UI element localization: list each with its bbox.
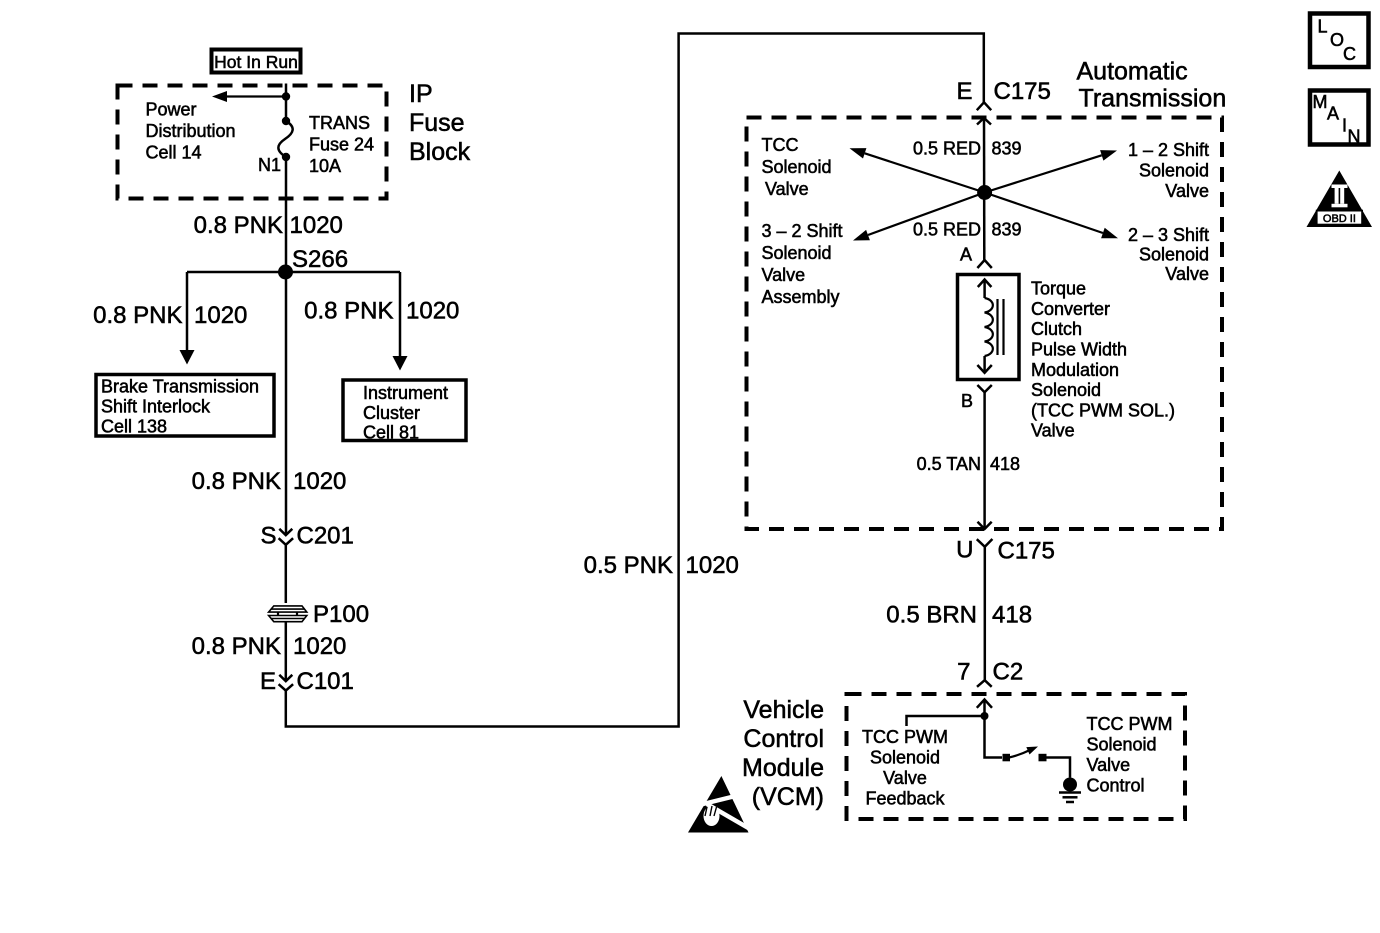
svg-text:839: 839 [992, 139, 1022, 159]
Power Distribution Cell 14 label [146, 100, 236, 163]
solenoid winding symbol [977, 280, 1003, 373]
svg-text:Solenoid: Solenoid [1139, 245, 1209, 265]
svg-text:I: I [1342, 116, 1347, 136]
wire label 0.8 PNK 1020 (right branch) [304, 298, 459, 325]
wire label 0.8 PNK 1020 [194, 212, 343, 239]
svg-text:Modulation: Modulation [1031, 360, 1119, 380]
svg-text:Hot In Run: Hot In Run [214, 52, 298, 72]
svg-text:Fuse 24: Fuse 24 [309, 135, 374, 155]
grommet P100 [269, 606, 307, 622]
arrow to 2-3 Shift Solenoid Valve [985, 193, 1118, 239]
svg-text:0.8 PNK: 0.8 PNK [192, 633, 281, 660]
wire C175 to C2 [984, 547, 987, 680]
svg-text:C101: C101 [297, 668, 354, 695]
main wire S266 down to C201 [285, 272, 288, 534]
svg-text:Shift Interlock: Shift Interlock [101, 397, 211, 417]
splice S266 node [278, 265, 293, 280]
wire from Hot In Run into fuse block [285, 84, 288, 122]
svg-text:TRANS: TRANS [309, 113, 370, 133]
switch arm with arrow [1009, 747, 1038, 758]
svg-text:N: N [1348, 127, 1361, 147]
splice node inside transmission [977, 185, 992, 200]
wire label 0.8 PNK 1020 (left branch) [93, 302, 247, 329]
fuse TRANS Fuse 24 [278, 117, 292, 161]
wire label 0.8 PNK 1020 (above C201) [192, 468, 347, 495]
Instrument Cluster box [343, 380, 466, 443]
svg-text:Valve: Valve [1087, 755, 1131, 775]
connector C175 female Y [977, 539, 993, 547]
wire label 0.5 BRN 418 [886, 602, 1032, 629]
wire to Instrument Cluster [393, 272, 408, 371]
svg-text:A: A [960, 245, 972, 265]
svg-text:O: O [1330, 30, 1344, 50]
connector C201 (male arrow half) [279, 529, 292, 535]
svg-text:OBD II: OBD II [1323, 213, 1356, 225]
svg-text:U: U [956, 537, 973, 564]
svg-text:C175: C175 [998, 538, 1055, 565]
svg-text:Valve: Valve [765, 179, 809, 199]
wire label 0.5 TAN 418 [917, 454, 1020, 474]
svg-text:0.5 BRN: 0.5 BRN [886, 602, 977, 629]
connector C2 male arrow entering VCM [977, 700, 992, 708]
svg-text:Converter: Converter [1031, 299, 1110, 319]
TCC PWM Solenoid Valve Control label [1087, 714, 1173, 796]
arrow to 1-2 Shift Solenoid Valve [985, 150, 1117, 192]
svg-text:839: 839 [992, 220, 1022, 240]
svg-text:Fuse: Fuse [409, 109, 465, 137]
svg-text:10A: 10A [309, 156, 341, 176]
wire label 0.5 RED 839 (lower) [913, 220, 1022, 240]
arrow to TCC Solenoid Valve [850, 148, 985, 192]
svg-text:Power: Power [146, 100, 197, 120]
svg-text:TCC PWM: TCC PWM [862, 727, 948, 747]
svg-text:Module: Module [742, 754, 824, 782]
wire P100 to C101 [285, 621, 288, 681]
TCC Solenoid Valve label [762, 135, 832, 199]
svg-text:Valve: Valve [1165, 264, 1209, 284]
1-2 Shift Solenoid Valve label [1128, 140, 1209, 201]
wire fuse to S266 [285, 157, 288, 272]
svg-text:TCC PWM: TCC PWM [1087, 714, 1173, 734]
2-3 Shift Solenoid Valve label [1128, 225, 1209, 284]
svg-text:IP: IP [409, 80, 433, 108]
connector C2 female chevron [977, 680, 992, 687]
Automatic Transmission dashed box [747, 118, 1223, 530]
long routing wire C101 to C175 [286, 34, 984, 727]
connector C175 male arrow leaving transmission [978, 522, 992, 529]
svg-text:Solenoid: Solenoid [762, 157, 832, 177]
wire from node to switch [985, 716, 1003, 758]
svg-text:S266: S266 [292, 246, 348, 273]
svg-text:TCC: TCC [762, 135, 799, 155]
node inside VCM [981, 712, 989, 720]
wire label 0.5 PNK 1020 [584, 552, 739, 579]
svg-text:Valve: Valve [762, 265, 806, 285]
svg-text:C175: C175 [994, 78, 1051, 105]
svg-text:Cluster: Cluster [363, 403, 420, 423]
svg-text:Valve: Valve [1165, 181, 1209, 201]
svg-text:Valve: Valve [883, 768, 927, 788]
svg-text:Solenoid: Solenoid [1139, 161, 1209, 181]
switch contact (left) [1003, 754, 1011, 762]
wire label 0.5 RED 839 (upper) [913, 139, 1022, 159]
svg-text:0.8 PNK: 0.8 PNK [93, 302, 182, 329]
OBD II symbol [1307, 171, 1373, 228]
TRANS Fuse 24 10A label [309, 113, 374, 176]
svg-text:B: B [961, 391, 973, 411]
svg-text:Brake Transmission: Brake Transmission [101, 377, 259, 397]
svg-text:0.5 RED: 0.5 RED [913, 139, 981, 159]
svg-text:7: 7 [957, 659, 970, 686]
svg-text:Assembly: Assembly [762, 287, 840, 307]
Hot In Run box [212, 50, 301, 73]
svg-text:1020: 1020 [686, 552, 739, 579]
svg-text:0.5 RED: 0.5 RED [913, 220, 981, 240]
svg-text:Cell 138: Cell 138 [101, 417, 167, 437]
svg-text:418: 418 [990, 454, 1020, 474]
svg-text:Transmission: Transmission [1079, 85, 1227, 113]
svg-text:Clutch: Clutch [1031, 319, 1082, 339]
switch contact (right) [1039, 754, 1047, 762]
wire from switch to ground [1047, 758, 1071, 778]
connector C101 (female chevron half) [279, 684, 294, 690]
svg-text:Block: Block [409, 138, 471, 166]
arrow to Power Distribution [212, 91, 286, 102]
svg-text:0.5 TAN: 0.5 TAN [917, 454, 981, 474]
svg-text:L: L [1318, 17, 1328, 37]
svg-text:0.8 PNK: 0.8 PNK [304, 298, 393, 325]
svg-text:Solenoid: Solenoid [1087, 735, 1157, 755]
svg-text:C: C [1343, 44, 1356, 64]
LOC reference box [1310, 14, 1369, 68]
svg-text:Valve: Valve [1031, 421, 1075, 441]
svg-text:E: E [260, 668, 276, 695]
Automatic Transmission label [1077, 58, 1227, 113]
svg-text:Solenoid: Solenoid [870, 748, 940, 768]
wire into VCM [983, 700, 986, 717]
svg-text:0.5 PNK: 0.5 PNK [584, 552, 673, 579]
svg-text:1020: 1020 [290, 212, 343, 239]
svg-text:Feedback: Feedback [865, 789, 945, 809]
wire to Brake Transmission Shift Interlock [180, 272, 195, 365]
svg-text:S: S [260, 523, 276, 550]
connector C175 female chevron [977, 102, 991, 110]
svg-text:Control: Control [1087, 776, 1145, 796]
wire label 0.8 PNK 1020 (above C101) [192, 633, 347, 660]
svg-text:Solenoid: Solenoid [1031, 380, 1101, 400]
svg-text:C201: C201 [297, 523, 354, 550]
Torque Converter Clutch PWM Solenoid label [1031, 279, 1175, 441]
svg-text:Torque: Torque [1031, 279, 1086, 299]
svg-text:1020: 1020 [293, 633, 346, 660]
feedback stub wire [907, 716, 985, 726]
3-2 Shift Solenoid Valve Assembly label [762, 221, 843, 307]
svg-text:E: E [956, 78, 972, 105]
svg-text:1020: 1020 [194, 302, 247, 329]
pin A chevron [977, 260, 991, 268]
svg-text:3 – 2 Shift: 3 – 2 Shift [762, 221, 843, 241]
svg-text:A: A [1327, 104, 1339, 124]
svg-text:Cell 81: Cell 81 [363, 423, 419, 443]
svg-text:Solenoid: Solenoid [762, 243, 832, 263]
Vehicle Control Module dashed box [847, 694, 1186, 819]
svg-text:1020: 1020 [406, 298, 459, 325]
svg-text:N1: N1 [258, 155, 281, 175]
ground [1059, 778, 1081, 803]
IP Fuse Block label [409, 80, 471, 166]
svg-text:1020: 1020 [293, 468, 346, 495]
ESD warning symbol [688, 776, 752, 833]
Brake Transmission Shift Interlock box [96, 375, 274, 437]
svg-text:0.8 PNK: 0.8 PNK [192, 468, 281, 495]
svg-text:0.8 PNK: 0.8 PNK [194, 212, 283, 239]
svg-text:(TCC PWM SOL.): (TCC PWM SOL.) [1031, 401, 1175, 421]
arrow to 3-2 Shift Solenoid Valve Assembly [853, 193, 985, 241]
svg-text:2 – 3 Shift: 2 – 3 Shift [1128, 225, 1209, 245]
svg-text:Control: Control [743, 725, 824, 753]
horizontal wire at S266 [187, 271, 400, 274]
Vehicle Control Module (VCM) label [742, 696, 824, 811]
svg-text:(VCM): (VCM) [752, 783, 824, 811]
node at power distribution tap [282, 92, 290, 100]
TCC PWM solenoid box [958, 275, 1020, 380]
wire into transmission down to A [983, 118, 986, 260]
connector C201 (female chevron half) [279, 538, 294, 545]
wire C201 to P100 [285, 545, 288, 603]
TCC PWM Solenoid Valve Feedback label [862, 727, 948, 809]
svg-text:Pulse Width: Pulse Width [1031, 340, 1127, 360]
svg-text:Instrument: Instrument [363, 383, 448, 403]
svg-text:Vehicle: Vehicle [743, 696, 824, 724]
pin B chevron [977, 385, 991, 392]
MAIN reference box [1310, 91, 1369, 147]
svg-text:P100: P100 [313, 601, 369, 628]
connector C175 male arrow entering transmission [977, 118, 991, 125]
svg-text:C2: C2 [993, 659, 1024, 686]
svg-text:418: 418 [992, 602, 1032, 629]
svg-text:1 – 2 Shift: 1 – 2 Shift [1128, 140, 1209, 160]
wire B down to C175 [983, 392, 986, 529]
svg-text:M: M [1313, 92, 1328, 112]
svg-text:Distribution: Distribution [146, 121, 236, 141]
svg-text:Cell 14: Cell 14 [146, 143, 202, 163]
connector C101 (male arrow half) [279, 675, 292, 681]
svg-text:Automatic: Automatic [1077, 58, 1188, 86]
IP Fuse Block dashed box [118, 86, 387, 199]
